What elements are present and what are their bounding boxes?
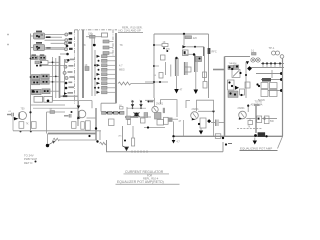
diode CR3 — [98, 59, 116, 62]
wire — [144, 127, 165, 129]
ground — [253, 138, 257, 145]
diode CR10 — [97, 91, 116, 94]
junction — [66, 53, 69, 56]
junction — [112, 112, 114, 114]
terminal F1 — [65, 59, 74, 63]
svg-text:TP-1: TP-1 — [269, 46, 275, 50]
diode CR7 — [94, 77, 116, 80]
relay K4 — [124, 126, 135, 146]
svg-text:7K: 7K — [83, 43, 86, 47]
svg-text:RFC: RFC — [212, 51, 217, 54]
junction — [254, 134, 257, 137]
junction — [147, 126, 149, 128]
wire — [204, 56, 206, 81]
wire — [246, 118, 256, 120]
wire — [45, 39, 65, 41]
resistor R32 (zigzag) — [100, 142, 107, 144]
wire — [12, 116, 14, 130]
transistor Q7 — [191, 108, 200, 120]
resistor R1 — [86, 33, 102, 39]
label 4.7MEG — [119, 65, 125, 72]
wire — [183, 120, 185, 136]
junction — [163, 47, 165, 49]
arrow — [77, 101, 80, 109]
svg-text:(F): (F) — [119, 136, 122, 138]
resistor R9b — [161, 55, 166, 60]
wire — [127, 107, 146, 109]
junction — [32, 90, 34, 92]
svg-text:1K: 1K — [85, 64, 88, 67]
wire — [45, 36, 47, 38]
capacitor C3 (electrolytic) — [175, 57, 178, 76]
wire — [49, 81, 64, 83]
junction — [159, 81, 161, 83]
bus — [174, 135, 284, 137]
rail — [249, 67, 284, 69]
contact row — [36, 65, 64, 67]
resistor RA — [203, 72, 207, 78]
terminal F3 — [63, 71, 72, 74]
resistor R24 — [72, 122, 77, 129]
wire — [184, 53, 195, 55]
transistor cluster Q4 — [228, 80, 245, 97]
bus — [255, 105, 257, 134]
svg-text:2N301: 2N301 — [238, 107, 246, 110]
terminal E4 — [65, 48, 73, 51]
resistor R26 — [102, 111, 107, 114]
resistor R11 — [257, 116, 262, 123]
svg-text:220: 220 — [193, 37, 198, 40]
junction — [245, 74, 247, 76]
bias loop — [161, 100, 178, 117]
ground — [194, 72, 199, 94]
rail thick — [48, 133, 96, 135]
bus — [115, 33, 117, 103]
resistor R25 — [86, 121, 91, 130]
wire — [45, 48, 65, 50]
wire — [183, 34, 185, 45]
svg-text:50 MV: 50 MV — [258, 99, 265, 102]
junction — [55, 76, 57, 78]
junction — [212, 110, 214, 112]
wire — [186, 46, 204, 48]
junction blob — [135, 113, 139, 117]
wire — [213, 69, 225, 71]
rail — [261, 63, 284, 65]
junction — [46, 144, 49, 147]
terminal — [280, 72, 283, 75]
junction — [153, 81, 155, 83]
resistor R8 — [185, 36, 197, 40]
note text — [119, 25, 143, 32]
wire — [60, 139, 97, 141]
bus — [77, 30, 79, 126]
wire — [262, 118, 277, 120]
junction — [222, 137, 224, 139]
wire — [47, 111, 66, 113]
junction — [153, 44, 155, 46]
switch bank S4 — [32, 89, 51, 95]
rail — [13, 130, 101, 132]
capacitor C4 — [185, 62, 191, 75]
wire — [154, 65, 159, 67]
resistor R29 — [120, 111, 125, 114]
tick marks — [132, 150, 147, 152]
svg-text:750: 750 — [21, 107, 26, 110]
junction cluster — [145, 100, 154, 102]
ground — [199, 128, 203, 135]
rail — [268, 90, 281, 92]
title underline 2 — [116, 183, 180, 185]
junction — [65, 82, 73, 85]
diode CR9 — [94, 86, 116, 89]
junction — [66, 45, 69, 48]
resistor R23 — [50, 109, 55, 113]
wire — [101, 102, 117, 104]
bus — [82, 30, 84, 98]
node A (margin dot) — [7, 34, 9, 36]
diode CR8 (diamond) — [207, 119, 211, 123]
junction — [172, 135, 174, 137]
bar — [163, 108, 165, 113]
junction — [198, 123, 200, 125]
blob tails — [134, 113, 140, 117]
wire stubs — [263, 64, 280, 68]
jack J3 — [280, 55, 284, 59]
junction — [30, 58, 32, 60]
rail — [256, 73, 281, 75]
transistor Q2 — [77, 110, 86, 119]
wire — [31, 76, 32, 78]
resistor R28 — [114, 111, 119, 114]
wire — [99, 131, 101, 140]
wire — [51, 42, 65, 44]
box — [127, 120, 130, 125]
resistor R6 — [85, 64, 90, 71]
svg-text:1K: 1K — [163, 41, 166, 44]
switch bank S1 — [31, 54, 46, 59]
terminal — [280, 89, 283, 92]
diode CR6 — [97, 73, 116, 76]
capacitor C1 — [93, 39, 96, 47]
svg-text:CURRENT REGULATOR: CURRENT REGULATOR — [125, 170, 164, 174]
wire — [138, 116, 151, 118]
wire — [60, 95, 79, 97]
junction — [194, 46, 196, 48]
switch bank S3 — [32, 74, 50, 85]
bus — [55, 58, 57, 98]
node B (margin dot) — [7, 44, 9, 46]
resistor Rt — [119, 105, 123, 109]
bus — [95, 108, 97, 140]
wire — [60, 53, 67, 55]
svg-text:7K: 7K — [120, 43, 123, 47]
svg-text:RET D: RET D — [24, 161, 32, 165]
transistor Q6 — [238, 104, 250, 120]
svg-text:2N301: 2N301 — [156, 103, 164, 106]
junction — [71, 111, 73, 113]
wire — [49, 75, 59, 77]
wire — [45, 47, 65, 49]
junction — [166, 50, 168, 52]
resistor R19 — [157, 120, 164, 126]
divider row — [101, 103, 127, 116]
emitter arrow — [14, 117, 19, 120]
transistor Q5 — [193, 53, 202, 72]
transformer T1 — [256, 78, 277, 97]
junction — [20, 130, 22, 132]
resistor R5 — [103, 52, 113, 55]
capacitor C5 — [211, 120, 224, 127]
bias loop Q7 — [197, 100, 214, 111]
bar — [254, 104, 260, 106]
junction — [183, 33, 185, 35]
diode CR9 — [246, 61, 249, 64]
ladder rails — [92, 33, 95, 96]
junction — [52, 81, 54, 83]
capacitor C6 — [7, 111, 13, 116]
diode CR7 (diamond) — [247, 66, 252, 71]
relay K1 — [34, 31, 45, 39]
diode CR2 — [97, 55, 116, 58]
svg-text:47K: 47K — [166, 49, 171, 51]
resistor R13 — [264, 116, 274, 124]
resistor R17 — [144, 113, 148, 118]
resistor R12 — [248, 121, 253, 129]
wire — [31, 47, 34, 49]
resistor R2 — [102, 33, 108, 37]
jack J2 — [276, 51, 280, 55]
resistor R16 — [141, 118, 146, 123]
svg-text:EQUALIZER POT AMP(RETD): EQUALIZER POT AMP(RETD) — [117, 180, 164, 184]
wire — [50, 90, 60, 92]
junction — [263, 117, 265, 119]
junction — [30, 130, 32, 132]
junction — [52, 61, 54, 63]
wire — [145, 81, 168, 83]
svg-text:THERM: THERM — [229, 63, 237, 65]
bus — [125, 116, 138, 118]
wire — [222, 142, 224, 152]
resistor R4 — [103, 46, 113, 49]
bus — [224, 57, 226, 138]
note underline — [118, 32, 143, 34]
box — [164, 117, 173, 124]
bus — [52, 57, 54, 101]
switch arm — [119, 126, 129, 151]
wire — [31, 35, 34, 37]
junction — [118, 112, 120, 114]
junction — [95, 127, 97, 129]
shield box (dash-dot) — [75, 30, 118, 104]
rail — [225, 56, 251, 58]
wire — [46, 112, 48, 134]
resistor R14 — [215, 134, 221, 139]
wire — [31, 104, 66, 106]
diode CR0 — [64, 92, 73, 95]
bus — [282, 59, 284, 137]
terminal F2 — [64, 65, 73, 68]
resistor R10 — [251, 51, 256, 56]
transistor cluster Q3 — [228, 65, 242, 78]
wire — [245, 62, 247, 98]
wire — [173, 118, 179, 120]
wire — [33, 107, 78, 109]
terminal E3 — [64, 42, 71, 45]
resistor R18 — [155, 113, 162, 120]
wire — [249, 119, 251, 121]
svg-text:MEG: MEG — [119, 69, 125, 72]
junction — [65, 86, 74, 89]
lamp DS2 — [256, 58, 260, 62]
rail — [261, 79, 281, 81]
junction — [106, 112, 108, 114]
svg-text:2N301: 2N301 — [192, 108, 200, 111]
label TO — [24, 154, 37, 165]
junction row — [262, 62, 281, 64]
title underline — [124, 173, 170, 175]
diode CR5 — [98, 68, 116, 71]
wire — [173, 122, 175, 137]
diode CR6 — [182, 45, 186, 48]
svg-text:4.7: 4.7 — [119, 65, 123, 68]
wire — [271, 70, 273, 78]
junction — [265, 135, 267, 137]
terminal — [280, 78, 283, 81]
svg-text:EQUALIZING POT AMP: EQUALIZING POT AMP — [240, 147, 272, 151]
resistor R21 — [19, 122, 24, 129]
contact bar — [46, 36, 51, 38]
caption underline — [240, 149, 278, 151]
wire — [203, 47, 205, 56]
resistor R27 — [108, 111, 113, 114]
bus — [64, 59, 66, 96]
resistor R31 (zigzag) — [53, 138, 60, 140]
box — [126, 116, 131, 120]
wire — [165, 62, 167, 75]
label — [251, 101, 263, 107]
bus — [59, 56, 61, 98]
capacitor C2 — [183, 50, 189, 56]
relay K2 — [34, 42, 45, 51]
switch S2 — [35, 61, 60, 65]
connector P1 — [203, 47, 217, 56]
transistor Q8 — [152, 98, 164, 113]
wire — [186, 101, 214, 137]
junction — [29, 111, 31, 113]
terminal F4 — [65, 76, 75, 79]
contact bar — [46, 47, 50, 49]
resistor R22 — [26, 122, 36, 129]
wire — [51, 36, 63, 38]
wire — [170, 65, 172, 77]
terminal E2 — [65, 38, 72, 42]
leader line — [278, 137, 283, 149]
junction — [88, 135, 90, 137]
wire — [52, 100, 92, 102]
arrow — [49, 141, 55, 145]
dashed wire — [237, 128, 262, 130]
jack J1 — [272, 51, 276, 55]
wire — [30, 34, 32, 132]
junction — [96, 140, 98, 142]
svg-text:NO. 2141 AND UP: NO. 2141 AND UP — [119, 29, 141, 33]
wire — [47, 134, 49, 144]
junction — [225, 143, 232, 145]
capacitor C10 — [139, 99, 143, 109]
resistor R30 — [109, 119, 115, 126]
resistor R7 (zigzag) — [118, 82, 154, 85]
transistor Q1 — [19, 107, 27, 119]
ground arrow — [172, 137, 181, 144]
frame wire — [154, 34, 209, 98]
fuse F1 — [258, 132, 266, 137]
resistor RB — [203, 82, 207, 89]
wire — [45, 34, 65, 36]
resistor R15 — [200, 118, 206, 128]
wire — [87, 117, 97, 119]
resistor R9c — [154, 73, 164, 79]
relay K3 — [34, 96, 52, 102]
wire — [91, 101, 93, 109]
resistor RC — [245, 82, 250, 88]
ground — [174, 76, 179, 94]
terminal E1 — [65, 32, 72, 36]
junction — [153, 65, 155, 67]
resistor R25a — [81, 122, 85, 130]
capacitor C7 — [64, 114, 71, 118]
lamp DS1 — [251, 58, 255, 62]
diode CR4 — [94, 64, 116, 67]
svg-text:7K: 7K — [26, 124, 29, 126]
wire — [107, 140, 224, 152]
diode CR8 — [97, 82, 116, 85]
capacitor C9 — [131, 99, 135, 109]
resistor R3 — [103, 40, 113, 43]
resistor R9 — [154, 41, 168, 47]
junction — [30, 76, 32, 78]
junction — [35, 161, 37, 163]
